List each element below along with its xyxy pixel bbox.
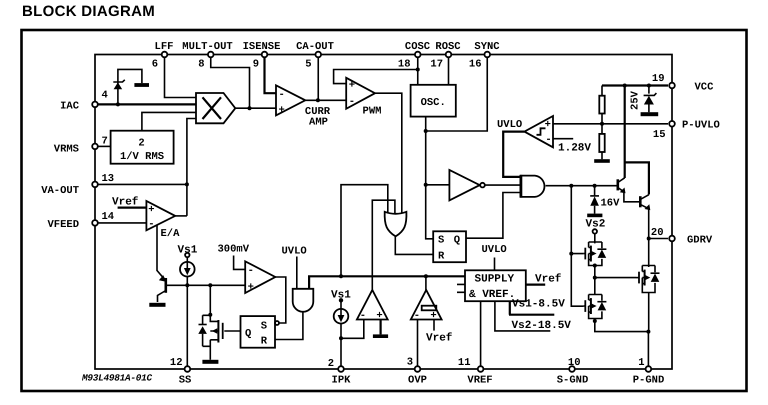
node buffer mid upper <box>593 264 597 268</box>
wire UVLO comparator output to AND gate input1 <box>503 132 524 177</box>
resistor R2 <box>599 134 604 152</box>
current source I1 Vs1 <box>180 262 195 277</box>
node soft-start Vs1 <box>185 283 189 287</box>
svg-text:Q: Q <box>245 328 251 340</box>
pin 7 VRMS <box>92 144 98 150</box>
wire Q1 emitter to Q2 base <box>624 192 640 202</box>
svg-text:PWM: PWM <box>363 106 382 118</box>
svg-text:VA-OUT: VA-OUT <box>41 185 79 197</box>
svg-text:-: - <box>349 96 355 108</box>
wire Vs1 current source to IPK pin2 <box>340 302 342 369</box>
svg-text:-: - <box>279 89 285 101</box>
op-amp 300mV comparator <box>245 261 275 293</box>
svg-text:CA-OUT: CA-OUT <box>296 41 334 53</box>
svg-text:300mV: 300mV <box>218 244 250 256</box>
IC boundary <box>95 55 672 370</box>
op-amp OVP comparator with hysteresis <box>411 290 442 322</box>
mosfet M4 soft-start with diode <box>198 315 222 364</box>
wire buffer MOSFET middle node to output MOSFET gate <box>595 266 636 295</box>
svg-text:19: 19 <box>652 73 665 85</box>
svg-text:+: + <box>279 105 285 117</box>
wire VA-OUT pin13 to E/A output node <box>95 183 187 185</box>
pin 6 LFF <box>162 52 168 58</box>
svg-text:2: 2 <box>138 138 144 150</box>
op-amp IPK comparator <box>357 290 388 322</box>
svg-text:Vs1: Vs1 <box>178 245 198 257</box>
wire SUPPLY box left stubs <box>457 284 465 292</box>
pin 2 IPK <box>338 366 344 372</box>
node VCC rail / 25V zener <box>647 84 651 88</box>
wire E/A output to PNP clamp emitter <box>156 222 158 271</box>
wire pin16 SYNC to oscillator output node <box>426 55 488 132</box>
terminal Vs2 <box>593 229 597 233</box>
svg-text:18: 18 <box>398 59 411 71</box>
svg-text:VRMS: VRMS <box>54 144 79 156</box>
svg-text:1: 1 <box>638 357 644 369</box>
svg-text:-: - <box>545 134 551 146</box>
node GDRV <box>647 237 651 241</box>
pin 15 P-UVLO <box>669 121 675 127</box>
wire OR gate output to latch1 R <box>395 236 433 254</box>
svg-text:1.28V: 1.28V <box>558 143 591 155</box>
wire to driver Q2 collector <box>625 162 649 194</box>
svg-text:-: - <box>248 265 254 277</box>
box OSC <box>411 85 456 117</box>
svg-text:10: 10 <box>568 357 581 369</box>
svg-text:9: 9 <box>253 59 259 71</box>
svg-text:S: S <box>261 321 267 333</box>
ground bar at PNP collector <box>149 303 165 307</box>
node bus / OR input <box>339 274 343 278</box>
wire COSC ramp to PWM non-inverting input <box>334 70 418 84</box>
wire IPK comparator ground stub <box>380 320 382 335</box>
or gate G3 pointing down <box>385 212 407 237</box>
wire buffer chain bottom to P-GND <box>595 319 649 370</box>
mosfet M3 output with body diode <box>636 266 660 293</box>
svg-text:14: 14 <box>102 211 115 223</box>
node SYNC / OSC <box>424 129 428 133</box>
pin 13 VA-OUT <box>92 182 98 188</box>
wire IAC zener clamp to bar <box>118 69 142 104</box>
node COSC / PWM ramp <box>416 68 420 72</box>
pin 3 OVP <box>415 366 421 372</box>
zener D1 at IAC pin <box>113 80 125 89</box>
wire pin18 COSC to OSC box <box>417 55 419 85</box>
pin 19 VCC <box>669 83 675 89</box>
wire pin5 CA-OUT down to CURR AMP output <box>317 55 319 101</box>
svg-text:11: 11 <box>458 357 471 369</box>
op-amp E/A <box>146 201 175 231</box>
svg-text:IAC: IAC <box>60 101 80 113</box>
svg-text:P-UVLO: P-UVLO <box>682 120 720 132</box>
current source I2 Vs1 <box>334 309 349 324</box>
svg-text:5: 5 <box>305 59 311 71</box>
svg-text:-: - <box>414 310 420 322</box>
wire multiplier output to CURR AMP <box>235 107 276 109</box>
wire OVP comparator output to bus <box>425 276 427 290</box>
op-amp CURR AMP <box>276 85 305 116</box>
svg-text:3: 3 <box>407 357 413 369</box>
wire IPK node to comparator inverting input <box>341 320 364 339</box>
svg-text:Q: Q <box>454 234 460 246</box>
pin 8 MULT-OUT <box>208 52 214 58</box>
node CURR AMP output / pin5 <box>316 98 320 102</box>
svg-text:ISENSE: ISENSE <box>243 41 281 53</box>
wire Vref to E/A non-inverting input <box>118 207 147 209</box>
svg-text:15: 15 <box>653 129 666 141</box>
svg-text:+: + <box>545 119 551 131</box>
svg-text:UVLO: UVLO <box>497 119 522 131</box>
pin 5 CA-OUT <box>315 52 321 58</box>
wire latch2 Q to soft-start MOSFET gate <box>224 330 240 332</box>
ground bar under R2 <box>594 159 610 163</box>
svg-text:OSC.: OSC. <box>421 97 446 109</box>
transistor Q1 NPN driver <box>618 178 626 194</box>
node P-GND riser <box>646 330 650 334</box>
wire pin6 LFF to multiplier <box>165 55 197 98</box>
wire SUPPLY box UVLO stub <box>494 258 496 271</box>
wire GDRV node to pin20 and output MOSFET <box>649 239 668 332</box>
svg-text:25V: 25V <box>630 90 642 110</box>
node OSC / inverter <box>424 183 428 187</box>
svg-text:Vref: Vref <box>535 272 562 285</box>
wire Vs1 8.5V label stub <box>509 301 554 315</box>
svg-text:Vs1: Vs1 <box>331 290 351 302</box>
wire UVLO comparator 1.28V stub <box>553 138 573 140</box>
comparator UVLO schmitt pointing left <box>524 116 553 147</box>
svg-text:UVLO: UVLO <box>282 246 307 258</box>
pin 12 SS <box>185 366 191 372</box>
node soft-start MOSFET drain <box>208 313 212 317</box>
wire soft-start node: PNP base to 300mV comparator <box>167 284 246 286</box>
svg-text:R: R <box>261 336 268 348</box>
transistor Q2 NPN driver <box>640 195 650 210</box>
transistor Q3 PNP clamp <box>157 271 167 303</box>
svg-text:8: 8 <box>198 59 204 71</box>
svg-text:6: 6 <box>152 59 158 71</box>
wire IAC pin4 to multiplier <box>95 103 196 105</box>
svg-text:Vs2-18.5V: Vs2-18.5V <box>512 320 572 332</box>
pin 1 P-GND <box>646 366 652 372</box>
supply bar at IAC clamp <box>134 83 149 87</box>
svg-text:13: 13 <box>102 173 115 185</box>
svg-text:LFF: LFF <box>155 41 174 53</box>
svg-text:16V: 16V <box>601 198 621 210</box>
pin 17 ROSC <box>446 52 452 58</box>
svg-text:+: + <box>349 79 355 91</box>
svg-text:SS: SS <box>179 375 192 387</box>
ground bar under 16V zener <box>587 214 602 218</box>
svg-text:+: + <box>430 310 436 322</box>
svg-text:S-GND: S-GND <box>557 375 589 387</box>
wire R2 stubs and ground <box>601 124 603 159</box>
zener D2 25V <box>644 93 657 104</box>
wire Vs2 18.5V label stub <box>495 301 550 331</box>
multiplier X1 <box>196 93 235 123</box>
wire small AND output to latch2 R <box>275 312 303 340</box>
svg-text:-: - <box>148 219 154 231</box>
svg-text:M93L4981A-01C: M93L4981A-01C <box>81 372 153 383</box>
terminal Vs1 <box>185 253 189 257</box>
wire SUPPLY to VREF pin11 <box>480 301 482 369</box>
svg-text:IPK: IPK <box>332 375 352 387</box>
wire Vs2 terminal to buffer MOSFET <box>594 234 596 242</box>
wire AND output to driver Q1 base <box>546 185 617 187</box>
svg-text:12: 12 <box>170 357 183 369</box>
wire E/A output to node <box>175 215 187 217</box>
svg-text:R: R <box>438 250 445 262</box>
wire VCC rail <box>602 84 668 86</box>
svg-text:+: + <box>148 204 154 216</box>
node VA-OUT / E-A output <box>185 182 189 186</box>
mosfet M1 buffer upper with body diode <box>584 242 607 266</box>
svg-text:+: + <box>248 281 254 293</box>
svg-text:BLOCK DIAGRAM: BLOCK DIAGRAM <box>22 3 155 20</box>
node IPK / comparator <box>339 336 343 340</box>
pin 10 S-GND <box>569 366 575 372</box>
wire Q2 emitter to GDRV node <box>648 208 650 239</box>
ground bar at IPK comparator <box>373 334 388 338</box>
wire pin8 MULT-OUT to multiplier output <box>211 55 250 109</box>
svg-text:GDRV: GDRV <box>687 235 713 247</box>
and gate G1 output <box>521 175 545 198</box>
svg-text:Vs1-8.5V: Vs1-8.5V <box>512 298 565 310</box>
box 2 1/V RMS <box>111 131 174 164</box>
node bus / OVP output <box>424 274 428 278</box>
svg-text:VFEED: VFEED <box>47 219 79 231</box>
node AND output / 16V zener <box>593 184 597 188</box>
op-amp PWM <box>346 78 375 109</box>
wire UVLO stub to small AND input1 <box>296 257 298 290</box>
svg-text:17: 17 <box>430 59 443 71</box>
box SUPPLY & VREF <box>465 270 526 301</box>
pin 9 ISENSE <box>262 52 268 58</box>
node buffer mid / output gate <box>593 276 597 280</box>
wire 16V zener drop <box>594 186 596 196</box>
wire gate-drive riser to buffer MOSFET gates <box>571 186 583 307</box>
svg-text:2: 2 <box>328 358 334 370</box>
pin 16 SYNC <box>484 52 490 58</box>
pin 4 IAC <box>92 102 98 108</box>
wire IPK comparator output to OR gate <box>372 200 395 290</box>
wire Vs1 source to soft-start node and SS pin12 <box>186 257 188 369</box>
wire VRMS pin7 to 1/V RMS box <box>95 145 111 147</box>
latch U2 S/R soft-start <box>241 316 280 348</box>
mosfet M2 buffer lower with body diode <box>584 295 607 319</box>
svg-text:COSC: COSC <box>405 41 431 53</box>
wire P-UVLO divider line <box>553 123 668 125</box>
pin 20 GDRV <box>669 236 675 242</box>
pin 11 VREF <box>478 366 484 372</box>
svg-text:Vref: Vref <box>426 332 453 345</box>
ground bar under 25V zener <box>641 112 659 116</box>
node gate riser split <box>569 252 573 256</box>
svg-text:AMP: AMP <box>309 117 328 129</box>
junction node dots <box>116 68 651 341</box>
wire OR gate input from bus <box>341 185 388 277</box>
node buffer bottom <box>593 319 597 323</box>
pin 14 VFEED <box>92 220 98 226</box>
wire R1 stubs <box>601 86 603 124</box>
title <box>22 3 155 20</box>
wire 1/V RMS output to multiplier <box>142 112 196 130</box>
wire OVP pin3 riser <box>417 320 419 369</box>
wire OVP Vref stub <box>433 320 435 331</box>
wire VFEED pin14 to E/A inverting input <box>95 222 146 224</box>
node soft-start MOSFET <box>208 283 212 287</box>
wire latch1 Q to AND gate input3 <box>466 193 521 239</box>
svg-text:MULT-OUT: MULT-OUT <box>182 41 232 53</box>
svg-text:& VREF.: & VREF. <box>469 289 515 301</box>
latch U1 S/R PWM <box>433 231 466 262</box>
svg-text:20: 20 <box>651 227 664 239</box>
node multiplier output / pin8 <box>248 106 252 110</box>
wire pin9 ISENSE to CURR AMP inverting input <box>265 55 277 94</box>
node AND output / gate riser <box>569 184 573 188</box>
pin 18 COSC <box>415 52 421 58</box>
wire E/A output node to multiplier input <box>187 119 196 216</box>
svg-text:E/A: E/A <box>161 228 181 240</box>
node P-UVLO divider <box>600 122 604 126</box>
and gate G2 soft-start <box>293 289 314 312</box>
terminal Vs1 IPK <box>339 298 343 302</box>
wire 300mV reference stub <box>234 256 246 270</box>
svg-text:-: - <box>360 310 366 322</box>
node VCC rail / Q1 riser <box>623 84 627 88</box>
wire inverter output to AND gate input2 <box>485 184 521 186</box>
wire OSC output down to latch S input <box>426 117 434 239</box>
svg-text:16: 16 <box>469 59 482 71</box>
wire SUPPLY Vref output <box>526 284 545 286</box>
inverter G4 <box>449 170 484 200</box>
svg-text:+: + <box>376 310 382 322</box>
svg-text:Vs2: Vs2 <box>586 219 606 231</box>
svg-text:OVP: OVP <box>408 375 427 387</box>
wire pin17 ROSC to OSC box <box>448 55 450 85</box>
svg-text:UVLO: UVLO <box>482 244 507 256</box>
wire soft-start MOSFET drain drop <box>209 285 211 315</box>
svg-text:SYNC: SYNC <box>474 41 500 53</box>
wire 300mV comparator output to latch2 S <box>275 277 286 323</box>
svg-text:ROSC: ROSC <box>435 41 461 53</box>
svg-text:7: 7 <box>102 136 108 148</box>
zener D3 16V <box>590 196 599 214</box>
svg-text:P-GND: P-GND <box>633 375 665 387</box>
node IAC clamp <box>116 102 120 106</box>
wire OVP bus from small AND input2 to SUPPLY box <box>309 276 465 289</box>
svg-text:VCC: VCC <box>695 82 715 94</box>
svg-text:4: 4 <box>102 90 108 102</box>
wire PWM output to OR gate <box>375 93 402 213</box>
wire CURR AMP output to PWM inverting input <box>305 99 346 101</box>
wire 25V zener stubs <box>648 86 650 113</box>
svg-text:SUPPLY: SUPPLY <box>475 273 515 285</box>
wire VCC riser to driver Q1 collector <box>624 86 626 179</box>
svg-text:Vref: Vref <box>112 196 139 209</box>
svg-text:1/V RMS: 1/V RMS <box>120 151 164 163</box>
resistor R1 <box>599 96 604 114</box>
svg-text:VREF: VREF <box>467 375 492 387</box>
svg-text:S: S <box>438 234 444 246</box>
wire inverter input from OSC line <box>426 184 450 186</box>
